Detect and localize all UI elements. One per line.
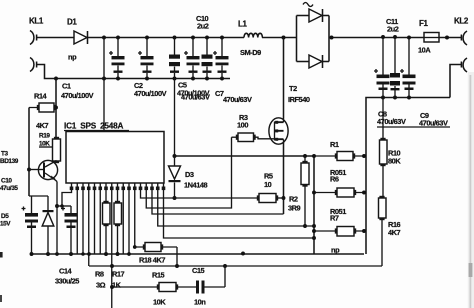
wire T2 source down bbox=[283, 143, 285, 215]
wire T3 emitter drop bbox=[56, 182, 58, 255]
node dot after fuse bbox=[445, 36, 449, 40]
svg-text:SM-D9: SM-D9 bbox=[240, 48, 261, 57]
resistor R10 label bbox=[388, 149, 401, 166]
svg-text:KL2: KL2 bbox=[454, 17, 469, 26]
wire pin2 to ground bbox=[76, 190, 78, 254]
resistor R5 label bbox=[264, 172, 273, 190]
rectifier upper branch wire bbox=[297, 15, 310, 17]
capacitor C11 2u2 (film) bbox=[390, 38, 400, 98]
wire +input rail D1 to L1 bbox=[88, 37, 245, 39]
rectifier diode pair left bar bbox=[296, 16, 298, 62]
capacitor C9 bbox=[400, 38, 416, 98]
svg-text:15V: 15V bbox=[0, 221, 11, 228]
wire lower feedback rail y266 bbox=[89, 265, 382, 267]
wire feedback line y156 bbox=[175, 155, 315, 157]
wire pin6 to ground bbox=[99, 190, 101, 254]
resistor R3 bbox=[232, 133, 254, 142]
wire pin11 to ground bbox=[128, 190, 130, 254]
label C2 value bbox=[134, 81, 167, 98]
svg-text:C1: C1 bbox=[62, 82, 71, 91]
resistor R19 bbox=[53, 139, 61, 163]
svg-text:R7: R7 bbox=[330, 214, 339, 223]
capacitor C1 bbox=[109, 38, 125, 79]
svg-text:R19: R19 bbox=[39, 133, 50, 140]
label C11 2u2 bbox=[386, 17, 399, 34]
label C5 value (overlapping scan text) bbox=[177, 81, 210, 102]
label C9 value underlined bbox=[419, 111, 448, 128]
resistor terminal ticks bbox=[37, 105, 386, 290]
node dots on minus rail bbox=[54, 77, 224, 81]
node dot source/R5 bbox=[282, 196, 286, 200]
resistor R14 bbox=[29, 103, 56, 112]
svg-text:T3: T3 bbox=[1, 151, 9, 158]
svg-text:100: 100 bbox=[237, 121, 248, 130]
zener diode D5 bbox=[42, 196, 54, 254]
svg-text:10A: 10A bbox=[418, 46, 431, 55]
scan artifact left edge marks bbox=[0, 252, 3, 302]
svg-text:R18 4K7: R18 4K7 bbox=[139, 256, 165, 265]
resistor R16 label bbox=[388, 220, 401, 237]
rectifier right bar bbox=[328, 16, 330, 62]
diode D2a bbox=[309, 9, 329, 22]
transistor T2 IRF540 bbox=[254, 118, 289, 144]
capacitor C5 (film) bbox=[169, 38, 180, 79]
svg-text:C10: C10 bbox=[1, 178, 12, 185]
transistor T2 label bbox=[288, 84, 310, 104]
svg-text:470u/63V: 470u/63V bbox=[223, 95, 252, 104]
node dot D3 top bbox=[173, 154, 177, 158]
node dot R18 left bbox=[133, 245, 137, 249]
resistor R10 bbox=[380, 98, 388, 199]
svg-text:10n: 10n bbox=[194, 298, 206, 307]
resistor R5 bbox=[259, 194, 284, 203]
svg-text:IC1 SPS 2548A: IC1 SPS 2548A bbox=[64, 122, 123, 131]
svg-text:BD139: BD139 bbox=[0, 158, 19, 165]
ground rail bbox=[32, 253, 365, 255]
capacitor C13 label bbox=[0, 178, 18, 193]
resistor R2 label bbox=[288, 195, 301, 213]
label C10 2u2 bbox=[196, 14, 209, 31]
node dots R1 R6 R7 bbox=[312, 154, 366, 233]
svg-text:C15: C15 bbox=[192, 266, 205, 275]
wire pin12 to R18 bbox=[135, 190, 145, 247]
svg-text:47u/35: 47u/35 bbox=[0, 185, 18, 192]
label D3 1N4148 bbox=[184, 170, 208, 190]
wire L1 to rectifier block bbox=[262, 37, 297, 39]
label R8 value bbox=[95, 270, 106, 290]
wire KL1 upper to D1 anode bbox=[40, 37, 74, 39]
svg-text:R8: R8 bbox=[95, 270, 104, 279]
wire pin5 to ground bbox=[94, 190, 96, 254]
node dot R15 left bbox=[110, 285, 114, 289]
wire KL1 lower to minus rail bbox=[40, 65, 230, 79]
diode D1 bbox=[74, 31, 88, 44]
node dots on output caps rail bbox=[381, 96, 411, 100]
svg-text:470u/63V: 470u/63V bbox=[419, 119, 448, 128]
resistor R18 bbox=[145, 243, 177, 267]
resistor R7 bbox=[314, 227, 364, 237]
svg-text:KL1: KL1 bbox=[29, 17, 44, 26]
svg-text:R2: R2 bbox=[289, 195, 298, 204]
wire T2 drain from rail bbox=[283, 38, 285, 119]
svg-text:D5: D5 bbox=[1, 213, 9, 220]
wire KL2 lower return bbox=[450, 65, 458, 98]
svg-text:3R9: 3R9 bbox=[288, 204, 301, 213]
svg-text:470u/63V: 470u/63V bbox=[181, 93, 210, 102]
resistor R8 bbox=[103, 190, 111, 254]
op-amp / controller IC1 body bbox=[66, 132, 164, 184]
svg-text:330u/25: 330u/25 bbox=[55, 277, 79, 286]
svg-text:R6: R6 bbox=[330, 175, 339, 184]
svg-text:D3: D3 bbox=[185, 170, 194, 179]
wire R14 left drop to T3 base bbox=[28, 108, 30, 197]
resistor R3 label bbox=[237, 113, 248, 130]
resistor R6 bbox=[314, 188, 364, 197]
wire IC supply drop at x104 bbox=[103, 38, 105, 132]
resistor R16 bbox=[379, 198, 387, 266]
wire R14 right from minus rail bbox=[55, 79, 57, 140]
IC IC1 label underlined bbox=[64, 122, 129, 131]
svg-text:10: 10 bbox=[264, 180, 272, 189]
wire bus4 pin16 to np box bbox=[158, 190, 314, 226]
wire pin10 to ground bbox=[122, 190, 124, 254]
IC1 pins row bbox=[70, 183, 166, 190]
capacitor C6 bbox=[184, 38, 200, 79]
transistor T3 BD139 bbox=[29, 160, 58, 181]
diode D5 label bbox=[0, 213, 11, 228]
node dot emitter/C14 bbox=[55, 204, 59, 208]
svg-text:R15: R15 bbox=[152, 271, 165, 280]
wire bus3 pin15 to source sense bbox=[152, 190, 284, 214]
node drain tap bbox=[282, 36, 286, 40]
capacitor C13 bbox=[22, 196, 49, 254]
capacitor C8 bbox=[374, 38, 390, 98]
svg-text:4K7: 4K7 bbox=[388, 228, 401, 237]
fuse F1 bbox=[424, 33, 439, 43]
diode pair D2 squiggle remnant bbox=[303, 3, 313, 7]
capacitor C7 bbox=[213, 38, 229, 79]
transistor T3 label bbox=[0, 151, 19, 166]
svg-text:T2: T2 bbox=[289, 84, 297, 93]
wire R3 gate feed bus bbox=[146, 137, 231, 208]
wire pin1 to emitter node bbox=[62, 190, 72, 206]
label R17 value bbox=[112, 270, 125, 290]
wire emitter node to C14 top bbox=[57, 205, 71, 207]
wire pin4 to lower feedback rail bbox=[88, 190, 90, 266]
resistor R7 label bbox=[330, 207, 346, 223]
label underline C8 C9 bbox=[377, 126, 450, 128]
label C8 value underlined bbox=[377, 110, 406, 127]
capacitor C15 bbox=[196, 266, 225, 294]
resistor R6 label bbox=[330, 168, 346, 184]
node dots y266 bbox=[110, 264, 227, 268]
capacitor C14 label bbox=[55, 267, 79, 286]
svg-text:2u2: 2u2 bbox=[387, 25, 399, 34]
node dot R14 right bbox=[54, 106, 58, 110]
resistor R17 bbox=[114, 190, 122, 254]
svg-text:L1: L1 bbox=[238, 20, 247, 29]
node dots R2 bottom and np left bbox=[303, 224, 316, 240]
svg-text:F1: F1 bbox=[419, 19, 428, 28]
capacitor C10 2u2 (film) bbox=[202, 38, 213, 79]
svg-text:1N4148: 1N4148 bbox=[184, 181, 208, 190]
node dot base stub bbox=[27, 168, 31, 172]
svg-text:R1: R1 bbox=[330, 140, 339, 149]
wire bus1 pin13 to R5 bbox=[141, 190, 260, 198]
node dots on +input rail bbox=[102, 36, 224, 40]
svg-text:10K: 10K bbox=[153, 298, 166, 307]
resistor R14 label bbox=[34, 92, 49, 131]
connector KL1 upper terminal bbox=[30, 31, 40, 45]
svg-text:D1: D1 bbox=[67, 18, 77, 27]
wire rectifier to fuse F1 bbox=[329, 37, 424, 39]
diode D3 bbox=[169, 156, 181, 198]
wire output caps bottom rail bbox=[366, 98, 450, 255]
wire pin3 to ground bbox=[82, 190, 84, 254]
svg-text:3Ω: 3Ω bbox=[96, 281, 106, 290]
resistor R1 bbox=[314, 152, 364, 161]
svg-text:np: np bbox=[68, 53, 77, 62]
wire np box right vertical: part of caps rail above bbox=[363, 155, 365, 157]
svg-text:np: np bbox=[331, 246, 340, 255]
svg-text:1K: 1K bbox=[112, 281, 122, 290]
wire bus5 pin17 to np box bbox=[164, 190, 315, 238]
rectifier lower branch wire bbox=[297, 61, 310, 63]
right edge scan artifact blob bbox=[469, 263, 473, 277]
resistor R15 bbox=[112, 283, 196, 292]
svg-text:80K: 80K bbox=[388, 157, 401, 166]
resistor R2 bbox=[301, 156, 309, 226]
label C1 value bbox=[61, 82, 94, 101]
capacitor C14 bbox=[61, 206, 78, 254]
connector KL2 upper terminal bbox=[458, 31, 467, 45]
connector KL2 lower terminal bbox=[458, 58, 467, 72]
diode D2b bbox=[309, 55, 329, 68]
svg-text:470u/100V: 470u/100V bbox=[61, 91, 94, 100]
resistor R19 label underlined bbox=[39, 133, 52, 148]
svg-text:R17: R17 bbox=[112, 270, 125, 279]
wire np box left vertical bbox=[313, 156, 315, 254]
right edge scan artifact line bbox=[470, 75, 472, 308]
node dots output rail bbox=[330, 35, 411, 39]
svg-text:C14: C14 bbox=[59, 267, 73, 276]
node dot R2 top bbox=[303, 154, 307, 158]
svg-text:4K7: 4K7 bbox=[36, 121, 49, 130]
svg-text:470u/63V: 470u/63V bbox=[377, 117, 406, 126]
wire pin8 long drop to bottom edge bbox=[111, 190, 113, 308]
node dot D3 bottom on bus1 bbox=[173, 196, 177, 200]
label C7 value bbox=[215, 89, 252, 104]
wire D3 anode feed from minus rail bbox=[174, 79, 176, 157]
node dots on ground rail bbox=[30, 252, 245, 256]
svg-text:2u2: 2u2 bbox=[197, 22, 209, 31]
capacitor C2 bbox=[138, 38, 154, 79]
svg-text:470u/100V: 470u/100V bbox=[134, 89, 167, 98]
svg-text:IRF540: IRF540 bbox=[288, 95, 310, 104]
wire fuse to KL2 bbox=[439, 37, 458, 39]
node dot pin1 junction bbox=[60, 204, 64, 208]
svg-text:R14: R14 bbox=[34, 92, 48, 101]
inductor L1 bbox=[244, 33, 262, 37]
scan artifact right band bbox=[468, 72, 474, 308]
fuse F1 label bbox=[418, 19, 431, 55]
connector KL1 lower terminal bbox=[30, 58, 40, 72]
